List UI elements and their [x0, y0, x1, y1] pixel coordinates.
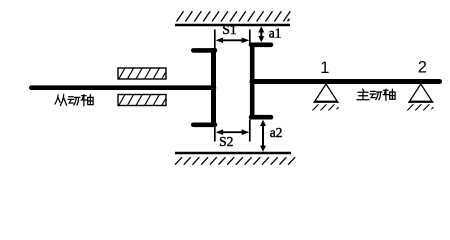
svg-text:1: 1 [320, 59, 329, 77]
svg-text:a2: a2 [270, 125, 283, 140]
svg-text:2: 2 [418, 59, 427, 77]
svg-text:a1: a1 [269, 25, 282, 40]
svg-text:S2: S2 [219, 134, 233, 149]
svg-text:S1: S1 [222, 22, 236, 37]
